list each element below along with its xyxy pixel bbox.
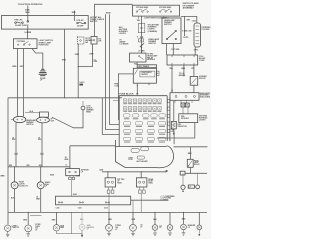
junction dots bottom bus [28,212,184,213]
wire bottom bus [8,211,207,213]
connector C201 box [137,65,156,68]
lamp dome symbol [39,69,47,75]
wire R1 down arrow [173,129,175,134]
lamp L5 [106,224,113,231]
wire drop to junction box [93,4,95,36]
connector B1 fuse1 [58,202,62,203]
connector C3 small [180,171,185,175]
lamp L4 ghost [79,224,85,230]
wire P2 down [41,123,43,167]
svg-text:YEL: YEL [134,63,137,65]
wire block bottom left feed [70,145,116,147]
svg-text:18: 18 [36,197,38,199]
wire S2 main beam wire [141,16,143,53]
switch S2 cluster 2 [160,9,172,13]
wire drop lamp6 [132,212,134,224]
svg-text:BAT TO: BAT TO [90,20,98,23]
wire drop lamp4 [71,212,73,233]
fuse F1 wire stub [27,16,29,30]
switch S8 small circle [196,185,200,189]
wire S4 out left [166,44,168,56]
wire drop lamp10 [198,212,200,225]
resistor R1 box [171,121,176,128]
headlamp box M3 [170,93,199,101]
relay K3 box [136,178,147,187]
wire dimmer to relay [141,48,143,53]
ground lamp L8 [168,233,172,235]
svg-text:LP: LP [189,186,191,188]
wire main left of pair [106,14,120,129]
wire S2 pin3 stub [163,16,165,19]
svg-text:LO BEAM: LO BEAM [120,43,129,46]
wire drop lamp3 [56,212,58,224]
oval P1 instrument dimmer left [13,116,25,122]
svg-text:BRN: BRN [1,175,6,177]
wire K1 drop [69,146,71,169]
lamp L6 [130,224,137,231]
svg-text:10 PPL: 10 PPL [183,37,189,39]
wire right lower bus [185,172,207,174]
wire C100 outR [193,65,195,76]
wire K0 down [136,62,138,65]
wire S1 out left [17,49,19,117]
wire drop x133 [132,200,134,212]
svg-text:S302: S302 [73,194,77,196]
svg-text:ORN: ORN [25,12,30,14]
wire hot feed into fuse panel [27,6,29,16]
svg-text:18: 18 [12,137,14,139]
svg-text:HTR A/C: HTR A/C [77,19,85,22]
lamp L3 marker [53,225,59,231]
wire P1 down [15,123,17,167]
fuse F1 PRK LPS symbol [15,22,24,24]
wire main right of pair [109,14,119,124]
svg-text:BEAMS: BEAMS [179,74,186,77]
lamp L9 [181,224,187,230]
fuse panel box [1,16,88,30]
svg-text:SWITCH: SWITCH [164,24,172,26]
wire drop lamp9 [183,212,185,224]
wire K2 to bus [108,193,110,212]
wire arrow into M3 [171,88,173,91]
wire lamp3 ground run [57,231,82,234]
relay K4 box [187,159,193,167]
ground lamp L5 [107,233,111,235]
svg-text:ILLUM LPS: ILLUM LPS [19,185,29,187]
svg-text:S240: S240 [50,174,54,177]
svg-text:PPL: PPL [191,68,194,70]
wire P3 down [14,189,16,213]
lamp L8 [167,225,173,231]
svg-text:S: S [137,37,138,39]
connector C100 wide box [167,55,198,65]
svg-text:ASSEMBLY: ASSEMBLY [183,7,195,10]
wire cross right [174,146,208,148]
connector C100b circle [81,106,85,110]
svg-text:LIGHTS: LIGHTS [199,119,206,121]
wire C100 outL [171,65,173,91]
relay K2 box [105,178,116,187]
wire U1 down pins [137,83,149,88]
svg-text:FEED: FEED [148,183,153,185]
svg-text:FEED: FEED [117,183,122,185]
svg-text:C210: C210 [56,208,60,210]
svg-text:CONN: CONN [199,60,205,62]
connector C202 tall [194,23,201,47]
svg-text:(HALOGEN): (HALOGEN) [200,96,211,99]
svg-text:8 TAN C100: 8 TAN C100 [182,30,191,33]
wire long feed V0 [64,29,66,98]
svg-text:11 LT GRN: 11 LT GRN [171,49,180,51]
wire C100b to dimmer [52,110,83,128]
wire S1 out mid [23,49,25,117]
splice S5 box [190,76,198,85]
svg-text:18: 18 [38,137,40,139]
wire S4 out right [172,44,174,56]
svg-text:S241: S241 [99,169,103,172]
fuse rows large [123,122,130,125]
connector K1 pins [70,176,74,177]
connector K1 box [66,169,80,176]
svg-text:20 AMP FUSE: 20 AMP FUSE [15,24,27,27]
wire B1 right note [160,196,163,201]
svg-text:C100: C100 [114,86,118,88]
wire park bus right [102,171,166,173]
wire drop K2 [107,172,109,178]
fuse row 3 [123,114,130,117]
wire branch from panel edge [102,98,119,135]
wire drop lamp1 [7,212,9,224]
lamp L2 right park [25,225,32,232]
svg-text:MODULE: MODULE [147,59,156,61]
svg-text:ORN: ORN [62,60,67,62]
svg-text:C211: C211 [78,208,82,210]
wire P4 down [40,189,42,213]
wire drop lamp2 [27,212,29,224]
ground G1 squares [181,103,185,107]
wire arrow into fuse block [136,88,138,93]
wire K1 to B1 [71,180,73,196]
svg-text:TO ELECTRICAL DISTRIBUTION: TO ELECTRICAL DISTRIBUTION [18,3,43,6]
switch box S2 headlamp switch [133,5,180,16]
fuse F2 symbol [77,22,86,24]
svg-text:RESISTOR: RESISTOR [178,126,188,128]
wire top bus to light switch [94,3,132,5]
wire S5 down [193,85,195,93]
wire S2 to dimmer connector [181,16,197,23]
ground arrow L4 [81,230,83,235]
relay K2 pins [109,187,113,190]
svg-text:ORN: ORN [75,54,80,56]
fuse block outline [119,96,170,147]
wire fuse output to light switch [27,29,29,39]
ground lamp L9 [182,233,186,235]
svg-text:OFF PARK: OFF PARK [17,40,26,43]
wire drop lamp7 [154,212,156,224]
svg-text:9 PPL: 9 PPL [194,49,199,51]
svg-text:R PRK /: R PRK / [35,224,41,226]
wire S2 pin1 stub [138,16,140,19]
wire drop lamp8 [169,212,171,224]
svg-text:LIGHTS: LIGHTS [119,33,127,35]
lamp L1 left park [5,225,11,231]
svg-text:LPS CONN: LPS CONN [163,198,172,200]
switch S4 dimmer switch box [162,18,181,44]
fuse block lower cells [131,149,139,153]
oval P2 instrument dimmer right [37,117,50,123]
connector C4 tiny box [188,185,194,188]
lamp L10 [197,225,202,230]
connector symbols mid [138,23,144,37]
svg-text:RELAY: RELAY [194,163,200,166]
svg-text:TURN LP: TURN LP [12,227,20,229]
svg-text:25 AMP: 25 AMP [77,25,84,28]
wire panel left edge [7,98,9,213]
wire turn feed [173,131,175,144]
ground lamp L1 [6,234,10,236]
ground lamp L7 [153,233,157,235]
wire M4 left leg [173,101,175,121]
ground lamp L6 [131,233,135,235]
ground dot L10 [198,234,200,236]
connector B1 box [56,196,131,205]
svg-text:CENTER: CENTER [141,74,149,76]
switch S6 dimmer body box [40,112,49,117]
ground lamp L2 [26,234,30,236]
wire drop to P4 [40,167,42,182]
svg-text:SWITCH: SWITCH [26,124,34,126]
fuse block right column cells [167,100,169,133]
svg-text:SPLICE: SPLICE [199,78,206,80]
svg-text:MODULE: MODULE [181,118,190,120]
svg-text:C202: C202 [192,21,196,23]
lamp P3 circle [11,182,18,189]
wire drop K3 [140,172,142,178]
connector tick P1 [14,153,17,155]
svg-text:(CANADA): (CANADA) [148,30,158,33]
wire S1 to flasher [32,49,43,70]
wire oval link [25,112,40,114]
svg-text:C205: C205 [76,175,80,177]
module U1 box [133,68,156,83]
wire C2 down [78,44,92,67]
svg-text:PRK LPS: PRK LPS [15,19,24,21]
wire U1 left out [118,74,133,119]
wire drop to P3 [14,167,16,182]
connector C1 dashed box [77,37,84,44]
connector B1 fuse3 [105,202,109,203]
svg-text:BRN: BRN [9,165,12,167]
svg-text:BRN: BRN [27,165,30,167]
svg-text:SW: SW [85,42,88,44]
wire K4 down [190,167,192,173]
wire M3 pins down [175,100,192,103]
wire drop lamp5 [108,212,110,224]
wire panel top edge [8,97,122,99]
switch S2 cluster 1 [136,9,148,13]
svg-text:COLUMN: COLUMN [201,29,210,31]
wire C202 down [194,47,196,55]
wire right pair [184,16,186,36]
wire bus stub second [30,214,42,216]
wire into relay K4 [190,147,192,160]
module M4 DRL [179,114,198,123]
svg-text:FEED: FEED [86,111,91,113]
wire B1 to right [131,199,169,201]
wire park bus left [8,166,70,168]
switch S3 dimmer pass [138,39,143,42]
wire C100 outM [183,65,185,76]
wire stub into block top-left [113,100,119,102]
svg-text:C212: C212 [104,208,108,210]
svg-text:PORTION): PORTION) [39,45,49,47]
svg-text:ORN: ORN [89,53,94,55]
relay K0 box [130,53,147,62]
lamp P4 circle [37,182,44,189]
wire K3 to bus [140,193,142,212]
svg-text:C1: C1 [65,165,67,167]
lamp L7 [152,225,158,231]
wire M4 right leg [157,123,195,138]
connector B1 fuse2 [79,202,83,203]
svg-text:BRN: BRN [12,66,17,68]
switch S1 park lamp switch box [14,39,38,49]
svg-text:14 BRN: 14 BRN [24,31,31,34]
svg-text:BRN: BRN [39,165,42,167]
svg-text:SWITCH: SWITCH [148,43,156,45]
relay K3 pins [140,187,144,190]
fuse row small fuses [123,99,127,102]
wire to DRL module [183,107,188,114]
wire C1 down [77,44,79,98]
switch S7 small circle [181,185,185,189]
connector C2 box [91,37,97,45]
wire fuse F2 feed [73,11,75,21]
connector tick P2 [40,153,43,155]
